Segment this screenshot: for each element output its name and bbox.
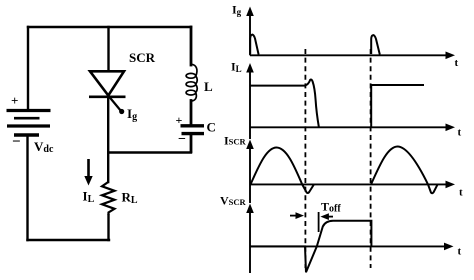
svg-text:−: − <box>12 134 21 150</box>
svg-text:+: + <box>176 113 183 127</box>
svg-text:IL: IL <box>83 189 95 206</box>
svg-text:SCR: SCR <box>129 50 156 65</box>
ISCR hump 1 with negative dip <box>251 148 314 194</box>
axis ISCR plot <box>250 145 447 203</box>
battery Vdc <box>7 111 51 136</box>
wire left vertical to battery <box>27 27 29 110</box>
wire capacitor down <box>190 135 193 152</box>
wire SCR cathode down to resistor <box>107 96 109 182</box>
wire commutation horizontal <box>108 151 191 153</box>
wire inductor to capacitor <box>190 101 193 125</box>
svg-text:C: C <box>207 120 216 135</box>
svg-text:L: L <box>204 79 213 94</box>
gate wire with dot <box>109 97 121 112</box>
resistor RL <box>102 182 115 215</box>
IL waveform segment 1 with bump and decay <box>250 80 319 127</box>
dashed timing line 2 <box>370 49 372 268</box>
svg-text:Ig: Ig <box>127 106 137 123</box>
wire top horizontal <box>28 26 191 28</box>
axis IL plot <box>250 68 447 139</box>
wire battery to bottom <box>26 136 28 240</box>
SCR Q1 <box>89 71 126 97</box>
Ig pulse 1 <box>250 35 258 55</box>
svg-text:t: t <box>459 187 463 199</box>
svg-text:t: t <box>458 246 462 258</box>
svg-text:ISCR: ISCR <box>224 133 247 147</box>
current arrow IL <box>87 159 90 178</box>
svg-text:Vdc: Vdc <box>34 139 54 155</box>
wire SCR branch from top <box>107 27 109 71</box>
VSCR waveform <box>250 221 371 272</box>
svg-text:−: − <box>178 132 186 147</box>
svg-text:VSCR: VSCR <box>220 193 247 207</box>
wire right branch top <box>190 27 193 65</box>
wire resistor to bottom <box>107 215 109 240</box>
axis VSCR plot <box>250 209 447 273</box>
svg-text:+: + <box>11 93 18 108</box>
axis Ig plot <box>250 12 447 55</box>
Ig pulse 2 <box>371 35 380 54</box>
svg-text:Ig: Ig <box>232 3 242 18</box>
wire bottom horizontal <box>28 239 110 241</box>
capacitor C <box>181 126 205 134</box>
ISCR hump 2 with negative dip <box>371 147 438 194</box>
Toff annotation arrows <box>290 212 333 232</box>
dashed timing line 1 <box>304 49 306 268</box>
svg-text:t: t <box>458 127 462 139</box>
svg-text:Toff: Toff <box>321 200 341 215</box>
svg-text:t: t <box>455 57 459 69</box>
IL waveform segment 2 step <box>371 85 424 127</box>
svg-text:IL: IL <box>231 60 242 75</box>
svg-text:RL: RL <box>122 190 138 207</box>
inductor L <box>186 64 197 101</box>
